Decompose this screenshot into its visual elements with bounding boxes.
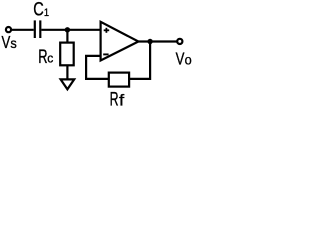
svg-text:1: 1	[44, 7, 49, 19]
svg-text:R: R	[38, 46, 47, 67]
svg-text:s: s	[10, 36, 17, 51]
svg-text:o: o	[185, 52, 192, 67]
svg-text:c: c	[47, 51, 54, 66]
svg-text:C: C	[33, 0, 44, 20]
svg-text:f: f	[119, 91, 124, 109]
svg-text:V: V	[176, 50, 185, 69]
svg-text:V: V	[1, 33, 10, 52]
svg-text:R: R	[110, 89, 119, 111]
